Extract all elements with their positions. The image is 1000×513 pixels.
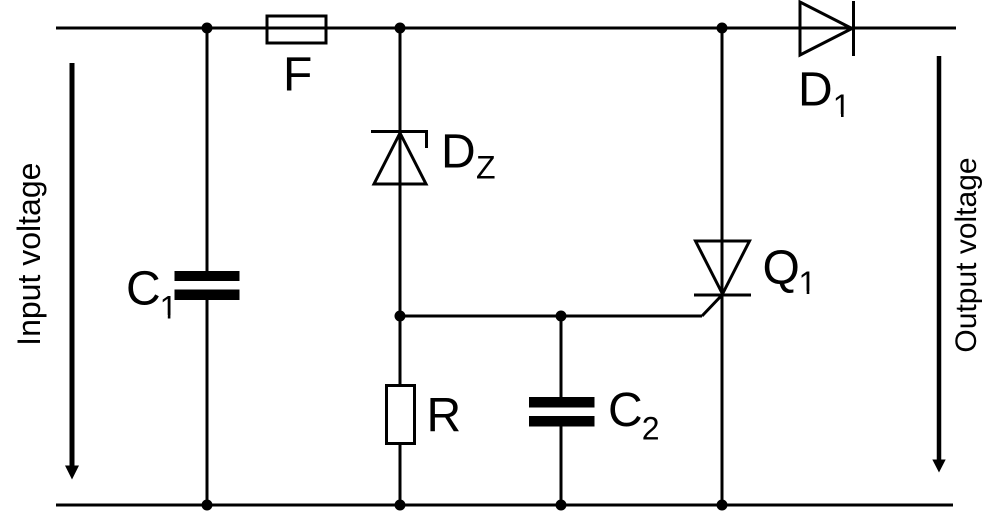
wire Q1 branch	[721, 28, 724, 505]
svg-text:F: F	[283, 49, 312, 102]
thyristor Q1	[694, 241, 751, 295]
node dot top-Q1	[717, 23, 728, 34]
capacitor C1	[175, 271, 240, 281]
zener diode Dz	[371, 132, 428, 185]
wire bottom rail	[56, 504, 953, 507]
svg-text:R: R	[427, 390, 462, 443]
node dot bottom-Q1	[717, 500, 728, 511]
wire C1 branch lower	[206, 299, 209, 505]
wire gate node horizontal	[400, 315, 702, 318]
diode D1	[800, 1, 854, 56]
wire C2 branch upper	[560, 316, 563, 398]
wire R to bottom rail	[399, 443, 402, 505]
svg-text:Input voltage: Input voltage	[11, 163, 47, 346]
fuse F	[267, 16, 326, 43]
node dot bottom-R	[395, 500, 406, 511]
resistor R	[387, 386, 415, 444]
node dot top-C1	[202, 23, 213, 34]
node dot bottom-C1	[202, 500, 213, 511]
node dot gate-C2	[556, 311, 567, 322]
wire top rail	[56, 27, 956, 30]
input voltage arrow	[65, 63, 79, 480]
wire C1 branch upper	[206, 28, 209, 272]
output voltage arrow	[932, 56, 945, 473]
svg-text:Output voltage: Output voltage	[950, 157, 983, 352]
wire C2 branch lower	[560, 426, 563, 505]
capacitor C2	[529, 397, 595, 408]
node dot gate-Dz	[395, 311, 406, 322]
wire gate diagonal	[702, 295, 722, 316]
wire Dz/R branch	[399, 28, 402, 386]
node dot bottom-C2	[556, 500, 567, 511]
node dot top-Dz	[395, 23, 406, 34]
